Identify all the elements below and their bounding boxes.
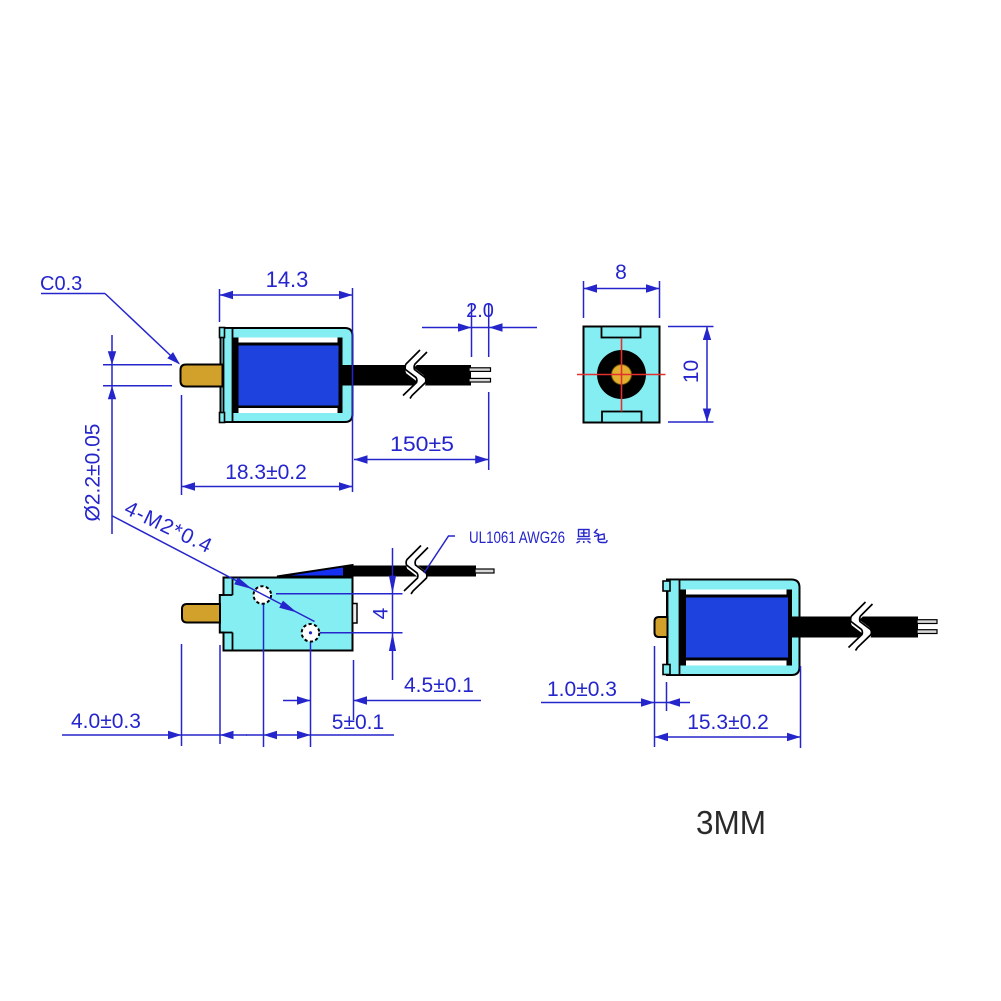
wire (343, 566, 476, 577)
bracket tab bottom (220, 413, 225, 423)
svg-text:10: 10 (680, 360, 703, 383)
svg-text:15.3±0.2: 15.3±0.2 (687, 711, 769, 734)
wire (341, 365, 471, 386)
coil blue (239, 346, 339, 406)
bracket tab bottom (663, 665, 670, 675)
plunger (181, 365, 223, 387)
bracket tab top (663, 581, 670, 591)
svg-text:8: 8 (615, 261, 627, 284)
coil white gap (233, 338, 343, 414)
svg-text:18.3±0.2: 18.3±0.2 (225, 461, 307, 484)
fake kanji 黑色 (577, 529, 608, 543)
gold center (612, 365, 632, 385)
svg-text:2.0: 2.0 (466, 300, 494, 322)
pin 1 (917, 620, 937, 624)
wire wedge (277, 565, 353, 577)
svg-text:4: 4 (370, 607, 393, 619)
red crosshair vertical (621, 338, 623, 412)
red crosshair horizontal (577, 374, 666, 376)
svg-text:UL1061 AWG26: UL1061 AWG26 (469, 528, 565, 547)
wire break (404, 546, 428, 595)
svg-text:1.0±0.3: 1.0±0.3 (547, 678, 617, 701)
dimension 4 (vertical) (276, 593, 403, 595)
wire (792, 617, 918, 638)
bracket internal lines (232, 578, 234, 596)
body frame (221, 328, 353, 422)
coil black frame (680, 595, 792, 661)
leader 4-M2*0.4 (112, 516, 315, 622)
bottom notch (602, 412, 642, 423)
screw hole 1 (253, 586, 271, 604)
body front (584, 327, 660, 423)
wire break (849, 602, 873, 651)
screw hole 2 (302, 624, 320, 642)
svg-text:C0.3: C0.3 (40, 273, 82, 295)
gold pin (655, 617, 668, 637)
svg-text:5±0.1: 5±0.1 (332, 711, 384, 734)
coil blue (686, 598, 788, 658)
coil black frame (233, 343, 343, 409)
pin 2 (917, 630, 937, 634)
svg-text:3MM: 3MM (696, 804, 766, 841)
svg-text:4.0±0.3: 4.0±0.3 (71, 710, 141, 733)
right side tab (353, 604, 358, 624)
top notch (602, 327, 641, 338)
pin 2 (469, 378, 491, 382)
svg-text:14.3: 14.3 (266, 267, 309, 292)
bracket tab top (220, 328, 225, 338)
coil white gap (680, 590, 792, 666)
svg-text:Ø2.2±0.05: Ø2.2±0.05 (82, 424, 105, 522)
black core circle (597, 350, 646, 399)
svg-text:4.5±0.1: 4.5±0.1 (404, 674, 474, 697)
bracket strip (668, 580, 680, 676)
label UL1061 AWG26 black (424, 536, 455, 573)
svg-text:150±5: 150±5 (390, 433, 454, 456)
plunger (182, 604, 220, 623)
body outline (220, 578, 353, 651)
wire break (403, 350, 427, 399)
pin (475, 569, 494, 573)
pin 1 (469, 368, 491, 372)
bracket strip (224, 328, 233, 422)
body frame (667, 580, 800, 676)
